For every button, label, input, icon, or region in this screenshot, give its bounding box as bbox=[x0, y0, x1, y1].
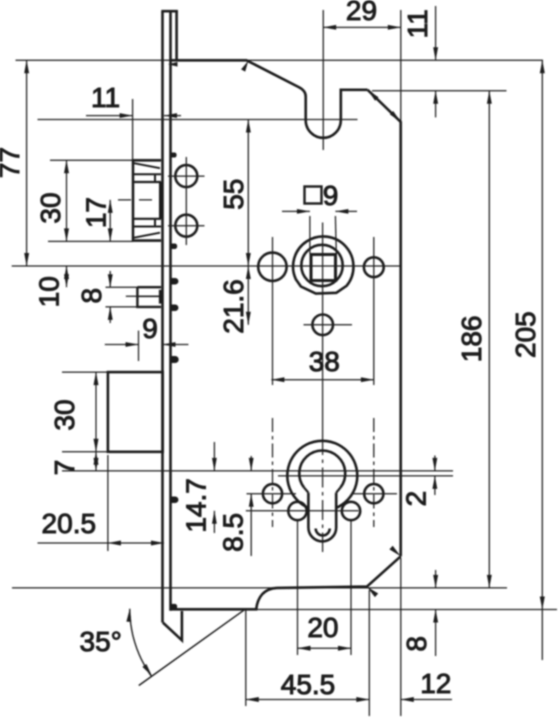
svg-text:30: 30 bbox=[35, 192, 66, 223]
svg-text:2: 2 bbox=[401, 491, 432, 507]
svg-text:21.6: 21.6 bbox=[218, 279, 249, 334]
svg-text:8.5: 8.5 bbox=[218, 513, 249, 552]
svg-text:45.5: 45.5 bbox=[281, 669, 336, 700]
svg-text:30: 30 bbox=[49, 399, 80, 430]
svg-text:8: 8 bbox=[401, 636, 432, 652]
svg-text:7: 7 bbox=[49, 460, 80, 476]
svg-text:35°: 35° bbox=[80, 626, 122, 657]
svg-text:10: 10 bbox=[33, 276, 64, 307]
svg-text:205: 205 bbox=[510, 311, 541, 358]
svg-text:9: 9 bbox=[142, 313, 158, 344]
svg-text:77: 77 bbox=[0, 147, 25, 178]
svg-text:17: 17 bbox=[81, 197, 112, 228]
svg-text:9: 9 bbox=[323, 180, 339, 211]
svg-text:8: 8 bbox=[76, 288, 107, 304]
svg-text:29: 29 bbox=[346, 0, 377, 26]
svg-text:20: 20 bbox=[307, 612, 338, 643]
svg-text:12: 12 bbox=[420, 668, 451, 699]
svg-text:11: 11 bbox=[91, 82, 120, 113]
svg-text:11: 11 bbox=[402, 9, 433, 38]
svg-text:38: 38 bbox=[309, 346, 340, 377]
svg-text:55: 55 bbox=[218, 179, 249, 210]
svg-text:20.5: 20.5 bbox=[42, 508, 97, 539]
svg-text:186: 186 bbox=[456, 316, 487, 363]
svg-text:14.7: 14.7 bbox=[181, 478, 212, 533]
